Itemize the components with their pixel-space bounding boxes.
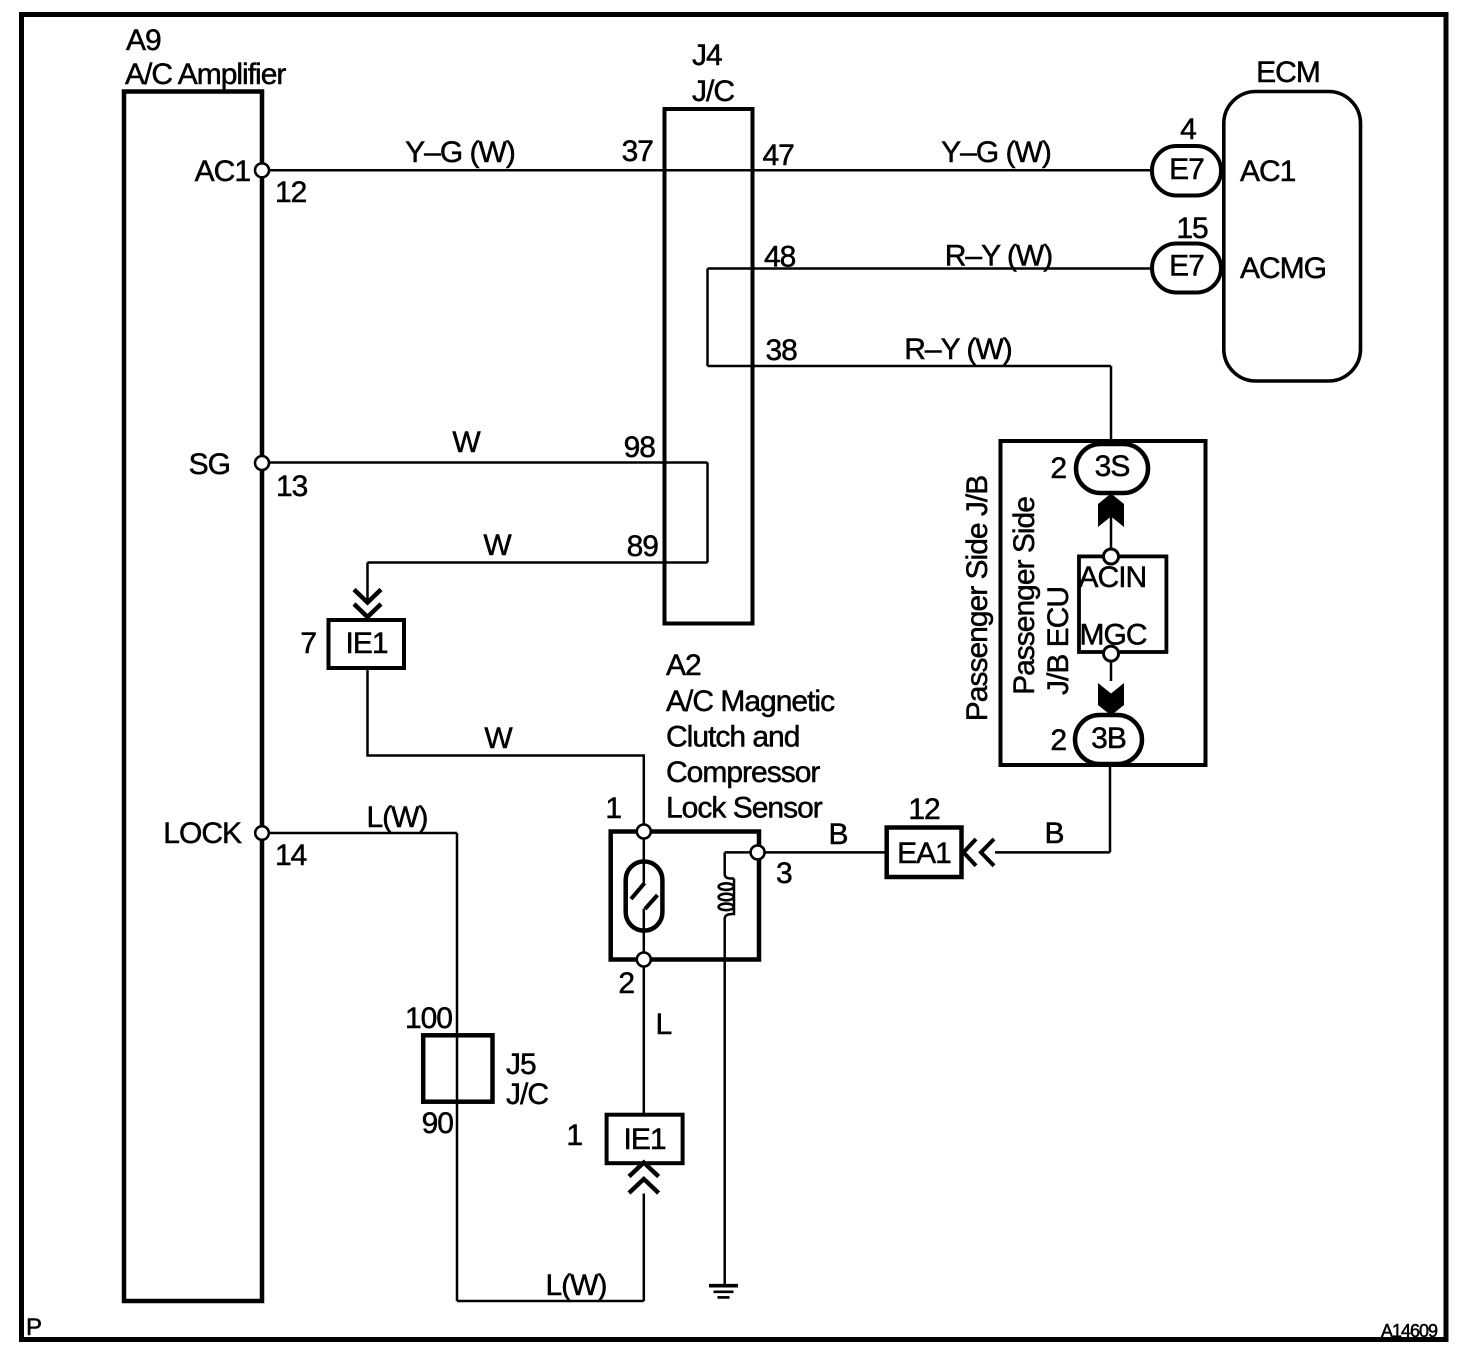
svg-text:15: 15: [1176, 212, 1208, 245]
svg-text:L(W): L(W): [546, 1269, 607, 1302]
svg-text:13: 13: [276, 470, 308, 503]
svg-text:A/C Amplifier: A/C Amplifier: [125, 58, 286, 91]
svg-text:37: 37: [622, 135, 654, 168]
svg-text:2: 2: [618, 967, 634, 1000]
svg-text:47: 47: [763, 139, 795, 172]
svg-text:Lock Sensor: Lock Sensor: [666, 792, 823, 825]
svg-text:Passenger Side J/B: Passenger Side J/B: [961, 476, 994, 721]
svg-text:MGC: MGC: [1080, 619, 1147, 652]
svg-text:2: 2: [1050, 452, 1066, 485]
svg-text:A2: A2: [666, 649, 701, 682]
svg-text:W: W: [452, 426, 481, 459]
svg-text:P: P: [26, 1314, 41, 1341]
svg-text:98: 98: [624, 431, 656, 464]
svg-text:SG: SG: [189, 448, 230, 481]
svg-text:AC1: AC1: [195, 155, 251, 188]
svg-text:89: 89: [627, 530, 659, 563]
svg-text:7: 7: [300, 627, 316, 660]
svg-text:14: 14: [275, 839, 307, 872]
svg-text:A9: A9: [126, 24, 161, 57]
svg-text:L: L: [656, 1008, 672, 1041]
svg-text:B: B: [1044, 817, 1063, 850]
svg-text:3B: 3B: [1091, 722, 1126, 755]
svg-text:AC1: AC1: [1240, 155, 1296, 188]
svg-text:A/C Magnetic: A/C Magnetic: [666, 685, 835, 718]
svg-text:1: 1: [605, 792, 621, 825]
svg-text:ECM: ECM: [1256, 56, 1320, 89]
svg-text:R–Y (W): R–Y (W): [904, 333, 1011, 366]
svg-text:W: W: [483, 529, 512, 562]
svg-text:J/B ECU: J/B ECU: [1042, 587, 1075, 695]
svg-text:E7: E7: [1169, 250, 1204, 283]
svg-text:3: 3: [776, 857, 792, 890]
svg-text:A14609: A14609: [1381, 1321, 1438, 1341]
svg-text:3S: 3S: [1095, 450, 1130, 483]
svg-text:ACMG: ACMG: [1240, 252, 1326, 285]
svg-text:R–Y (W): R–Y (W): [945, 240, 1052, 273]
svg-text:12: 12: [908, 793, 940, 826]
svg-text:90: 90: [422, 1107, 454, 1140]
svg-text:48: 48: [764, 241, 796, 274]
svg-text:E7: E7: [1169, 153, 1204, 186]
svg-text:J/C: J/C: [506, 1078, 548, 1111]
svg-text:4: 4: [1180, 113, 1196, 146]
svg-text:W: W: [484, 722, 513, 755]
svg-text:1: 1: [566, 1119, 582, 1152]
svg-text:IE1: IE1: [345, 627, 387, 660]
svg-text:J/C: J/C: [692, 75, 734, 108]
svg-text:LOCK: LOCK: [163, 817, 242, 850]
svg-text:IE1: IE1: [623, 1123, 665, 1156]
svg-text:L(W): L(W): [367, 801, 428, 834]
svg-text:100: 100: [405, 1002, 452, 1035]
svg-text:38: 38: [766, 334, 798, 367]
svg-text:ACIN: ACIN: [1079, 561, 1147, 594]
svg-text:J5: J5: [506, 1048, 536, 1081]
svg-text:Y–G (W): Y–G (W): [405, 136, 515, 169]
svg-text:12: 12: [275, 176, 307, 209]
svg-text:EA1: EA1: [897, 837, 951, 870]
svg-text:2: 2: [1050, 724, 1066, 757]
svg-text:Compressor: Compressor: [666, 756, 820, 789]
svg-text:Clutch and: Clutch and: [666, 721, 799, 754]
svg-text:Passenger Side: Passenger Side: [1008, 497, 1041, 695]
svg-text:J4: J4: [692, 39, 722, 72]
svg-text:Y–G (W): Y–G (W): [941, 136, 1051, 169]
svg-text:B: B: [828, 818, 847, 851]
